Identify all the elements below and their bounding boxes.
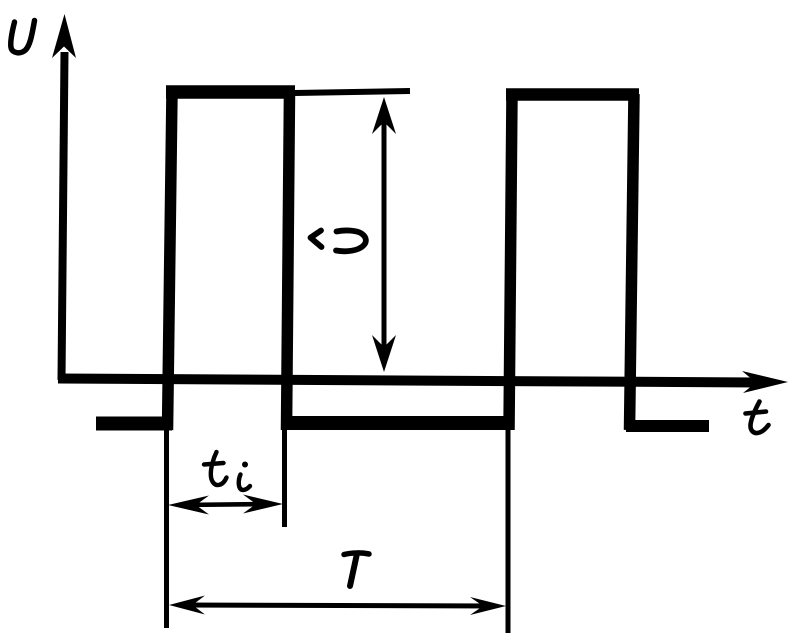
pulse 1 top — [166, 85, 295, 99]
dimension arrow t_i (horizontal double arrow) — [168, 495, 283, 515]
label t (time axis label) — [746, 402, 769, 434]
dot of i in t_i — [242, 462, 248, 468]
pulse 1 falling edge — [287, 92, 290, 430]
dimension arrow U-hat (amplitude, vertical double arrow) — [372, 97, 396, 372]
waveform low segment 1 — [96, 417, 172, 431]
x-axis (t axis) — [58, 371, 788, 393]
pulse 2 falling edge — [630, 94, 635, 430]
pulse 2 top — [506, 88, 639, 101]
label T (period) — [344, 553, 369, 586]
extension line from pulse-1 top (reference for U-hat) — [295, 91, 410, 93]
extension line below pulse-2 left edge — [506, 424, 511, 633]
dimension arrow T (horizontal double arrow) — [169, 596, 506, 616]
pulse 2 rising edge — [509, 94, 512, 430]
label U (voltage axis label) — [11, 21, 35, 53]
label t_i (pulse width) — [204, 452, 250, 490]
waveform low segment 3 — [626, 420, 709, 432]
pulse 1 rising edge — [168, 92, 173, 430]
extension line below pulse-1 right edge (for t_i) — [282, 430, 287, 527]
y-axis (U axis) — [52, 14, 76, 380]
waveform low segment 2 — [283, 416, 513, 430]
label U-hat (rotated amplitude label: caret + rotated U) — [311, 230, 366, 251]
extension line below pulse-1 left edge — [164, 424, 169, 628]
